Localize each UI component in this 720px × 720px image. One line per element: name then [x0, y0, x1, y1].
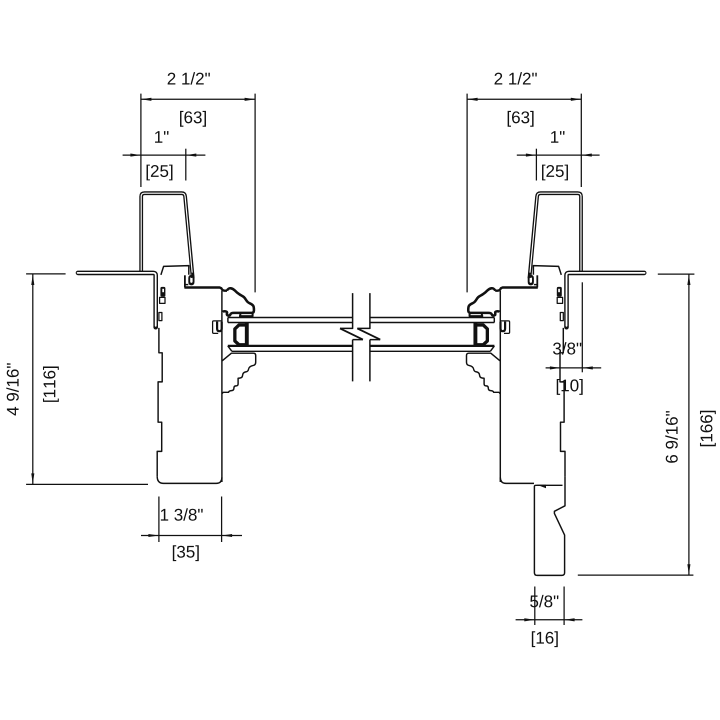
label [10] — [557, 379, 583, 395]
arrowhead 1 3/8 dim, right tip — [222, 534, 233, 537]
clip thick U — [217, 322, 222, 332]
right jamb bottom edge — [500, 477, 534, 483]
5/8 dim extension lines — [535, 587, 564, 626]
label 1" (left) — [155, 131, 168, 143]
arrowhead 5/8 dim, left tip — [524, 618, 535, 621]
arrowhead 5/8 dim, right tip — [564, 618, 575, 621]
3/8 dim line — [546, 367, 602, 369]
arrowhead 6 9/16 dim, bottom tip — [687, 564, 690, 575]
dimension texts — [6, 72, 716, 647]
label [16] — [532, 631, 558, 647]
label 2 1/2" (right) — [495, 72, 537, 84]
1 3/8 dim extension lines — [159, 497, 222, 543]
label [25] (right) — [542, 165, 568, 181]
right jamb assembly (mirror of common profile) — [467, 193, 645, 482]
top-right 1 dim extension line — [535, 149, 537, 181]
arrowhead 1in left dim, right tip — [186, 154, 197, 157]
dimension arrowheads — [31, 98, 690, 622]
arrowhead 3/8 dim, left tip — [550, 366, 561, 369]
left jamb bottom edge — [157, 476, 222, 483]
arrowhead 1in right dim, left tip — [526, 154, 537, 157]
label 4 9/16" (rotated) — [6, 363, 18, 415]
label [116] (rotated) — [43, 367, 59, 402]
jamb interior thick top edge with step — [184, 288, 227, 291]
arrowhead 1in left dim, left tip — [130, 154, 141, 157]
stop slope to ring junction — [192, 273, 195, 279]
kerf slot bottom — [185, 284, 188, 286]
top-left 1 dim extension line — [185, 149, 187, 181]
break symbol — [340, 293, 380, 381]
top-left 1 dim line — [123, 154, 206, 156]
label 6 9/16" (rotated) — [665, 411, 677, 463]
label [63] (left) — [180, 111, 206, 127]
arrowhead 3/8 dim, right tip — [582, 366, 593, 369]
outer face barb 2 (outline) — [160, 297, 165, 303]
top-right 2 1/2 dim line — [467, 98, 581, 100]
door panel bottom lines — [228, 345, 495, 347]
stop trapezoid (aluminum double wall) — [141, 193, 193, 278]
label 1" (right) — [551, 131, 564, 143]
scallop casing below panel — [222, 353, 256, 394]
arrowhead 1 3/8 dim, left tip — [148, 534, 159, 537]
arrowhead 1in right dim, right tip — [581, 154, 592, 157]
door-side clip outline — [213, 321, 222, 334]
outer face barb 3 (outline) — [159, 313, 162, 321]
right vertical dim 6 9/16 — [578, 274, 695, 575]
arrowhead 4 9/16 dim, bottom tip — [31, 473, 34, 484]
label 1 3/8" — [161, 508, 203, 520]
top-left 2 1/2 dim extension lines — [141, 94, 255, 293]
outer face barb 1 (dark) — [160, 287, 165, 297]
label 5/8" — [530, 595, 558, 607]
top-left 2 1/2 dim line — [141, 98, 255, 100]
stop hook curl ring — [188, 275, 194, 285]
flange bar with drop leg — [78, 273, 156, 327]
right jamb extension leg — [534, 476, 565, 575]
label [35] — [173, 545, 199, 561]
jamb outer stepped face — [157, 328, 162, 477]
ogee casing profile — [223, 288, 254, 315]
extension line x=582 (3/8 dim) — [581, 282, 583, 372]
casing feet — [240, 314, 252, 317]
kerf slot left wall — [184, 275, 186, 287]
arrowhead 2 1/2 right dim, left tip — [467, 98, 478, 101]
door panel top lines — [228, 318, 495, 352]
DIMENSIONS — [26, 94, 694, 625]
sealant wedge — [537, 485, 546, 488]
top-right 2 1/2 dim extension lines — [467, 94, 581, 293]
5/8 dim line — [516, 619, 583, 621]
label 3/8" — [553, 342, 581, 354]
label [63] (right) — [508, 111, 534, 127]
arrowhead 2 1/2 left dim, left tip — [141, 98, 152, 101]
arrowhead 6 9/16 dim, top tip — [687, 275, 690, 286]
contact bar — [239, 315, 253, 317]
jamb door-side face — [221, 291, 223, 482]
1 3/8 dim line — [141, 535, 242, 537]
arrowhead 2 1/2 right dim, right tip — [571, 98, 582, 101]
top-right 1 dim line — [517, 154, 600, 156]
label 2 1/2" (left) — [168, 72, 210, 84]
left vertical dim 4 9/16 — [26, 274, 148, 485]
jamb assembly (common mirrored profile) — [78, 193, 256, 482]
glazing bead — [245, 323, 249, 346]
label [25] (left) — [147, 165, 173, 181]
label [166] (rotated) — [700, 411, 716, 446]
wood jamb top surface line — [161, 266, 189, 275]
arrowhead 4 9/16 dim, top tip — [31, 275, 34, 286]
arrowhead 2 1/2 left dim, right tip — [245, 98, 256, 101]
